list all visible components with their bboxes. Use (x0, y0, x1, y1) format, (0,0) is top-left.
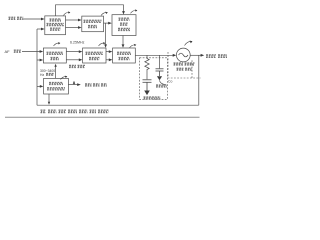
wire U7 to oscillator (135, 54, 174, 56)
label U3 text (119, 18, 130, 20)
arrowhead into U1 lower (41, 28, 45, 31)
diode D1 triangle (157, 76, 162, 80)
block U6 balanced modulator (83, 48, 106, 63)
wire U5 tap up tick (73, 82, 75, 85)
label U2 text (84, 20, 102, 22)
caption (41, 110, 109, 113)
label resonator (144, 97, 161, 99)
bottom page rule (5, 116, 200, 118)
wire C2 hook right (160, 80, 167, 84)
arrowhead into U2 lower (78, 26, 82, 29)
adjust arrow A5 over U6 (99, 42, 106, 46)
dashed box oscillator equivalent region (168, 52, 201, 78)
adjust arrow A2 over U2 (101, 12, 108, 16)
label output (206, 55, 227, 58)
label U4 text (47, 52, 64, 54)
adjust arrow A3 over U3 (131, 9, 138, 13)
arrowhead into U4 lower (40, 59, 44, 62)
wire U5 bottom down (48, 94, 50, 103)
wire U6 to U7 upper (106, 51, 110, 53)
arrowhead into U1 upper (41, 18, 45, 21)
wire T drop to U6 top (105, 23, 107, 46)
wire U1 to U2 upper (66, 19, 80, 21)
arrowhead U5 output right (77, 83, 81, 86)
svg-text:AF: AF (5, 49, 11, 54)
svg-text:Hz: Hz (40, 73, 44, 77)
svg-text:Co: Co (168, 80, 172, 84)
label input1 tiny text (9, 17, 24, 19)
label varicap (156, 85, 167, 87)
capacitor C2 branch (156, 55, 164, 76)
label oscillator text (174, 63, 195, 65)
wire U1 to U2 lower (66, 27, 80, 29)
wire junction to U1 lower input (37, 28, 42, 30)
block U2 frequency multiplier (82, 16, 104, 32)
wire vertical to U4 lower input (37, 59, 41, 61)
resistor R1 (145, 55, 149, 79)
block U3 mixer amplifier (112, 15, 136, 36)
arrowhead U5 down to bottom line (48, 102, 50, 105)
arrowhead into U5 left (40, 85, 44, 88)
arrowhead into U4 upper (40, 50, 44, 53)
arrowhead into U7 left lower (109, 58, 113, 61)
label U1 text (50, 19, 62, 21)
arrowhead into U6 upper (79, 50, 83, 53)
adjust arrow A1 over U1 (64, 11, 71, 15)
wire output return vertical (198, 55, 200, 105)
label U6 text (86, 52, 104, 54)
block U4 sub modulator (43, 48, 66, 63)
wire bottom return line (37, 104, 199, 106)
arrowhead into U7 left upper (109, 50, 113, 53)
arrowhead into U7 top (122, 44, 125, 47)
wire U2 to U3 (104, 22, 110, 24)
adjust arrow A8 over oscillator (185, 41, 193, 46)
wire U5 top to U4 bottom (55, 66, 57, 79)
arrowhead output (201, 54, 205, 57)
arrowhead U5 tap up (73, 81, 75, 84)
label U5 text (49, 82, 63, 84)
block U1 frequency modulator (45, 16, 66, 35)
arrowhead into oscillator (173, 54, 177, 57)
svg-text:6.25MHz: 6.25MHz (70, 41, 85, 45)
label U5 output (85, 84, 107, 86)
wire U4 to U6 upper (66, 51, 80, 53)
label U7 text (117, 52, 131, 54)
wire U3 bottom to U7 top (122, 36, 124, 46)
wire oscillator to output (190, 54, 202, 56)
arrowhead into U4 bottom from U5 (54, 64, 56, 67)
arrowhead into U2 upper (78, 19, 82, 22)
adjust arrow A4 over U4 (54, 42, 61, 46)
ground G1 (144, 91, 150, 96)
arrowhead into U6 lower (79, 58, 83, 61)
wire U6 to U7 lower (106, 59, 110, 61)
capacitor C1 below resistor (143, 80, 152, 91)
block U7 multiplier (113, 48, 136, 63)
wire U1 top to top line (56, 5, 124, 16)
oscillator OSC1 circle with sine (176, 48, 190, 62)
wire input2 AF to U4 (22, 51, 41, 53)
dashed box crystal equivalent (140, 58, 168, 100)
wire U5 output right (68, 84, 79, 86)
arrowhead into U3 top from top line (122, 11, 125, 14)
wire U4 to U6 lower (66, 59, 80, 61)
wire vertical to U5 input (37, 85, 41, 87)
adjust arrow A6 over U7 (130, 44, 137, 48)
label aux output (69, 65, 85, 67)
block U5 AF oscillator (44, 78, 69, 94)
arrowhead into U6 top (104, 44, 107, 47)
adjust arrow A7 over U5 (61, 76, 68, 80)
arrowhead into U3 left (108, 22, 112, 25)
wire left feedback vertical (36, 29, 38, 105)
wire input1 to U1 (23, 18, 42, 20)
